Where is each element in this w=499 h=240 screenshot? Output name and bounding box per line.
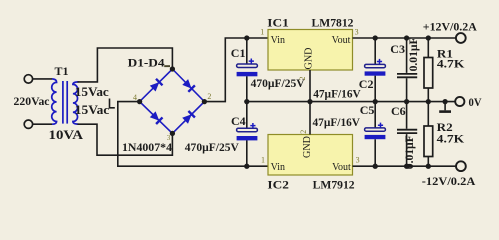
svg-text:15Vac: 15Vac — [75, 102, 110, 117]
svg-text:Vout: Vout — [332, 162, 351, 173]
svg-text:Vin: Vin — [271, 162, 285, 173]
wire: C6 branch — [406, 102, 408, 167]
transformer T1 secondary winding — [73, 82, 79, 124]
wire: 220V primary top lead — [33, 78, 52, 80]
svg-text:4.7K: 4.7K — [437, 132, 465, 146]
diode D2 (top node to right) — [182, 79, 195, 92]
svg-text:470µF/25V: 470µF/25V — [251, 76, 305, 90]
transformer T1 core — [62, 81, 64, 124]
diode D4 (bottom node to right) — [182, 111, 195, 124]
diode D3 (left node to bottom) — [150, 111, 163, 124]
capacitor C6 (0.01uF) — [397, 130, 417, 133]
node 4: bridge left junction — [137, 99, 142, 104]
junction dots top rail — [244, 35, 249, 40]
svg-text:470µF/25V: 470µF/25V — [185, 140, 239, 154]
node 1: bridge top junction — [170, 66, 175, 71]
svg-text:Vout: Vout — [332, 35, 351, 46]
wire: IC2 GND pin to 0V rail — [309, 102, 311, 135]
terminal: 220Vac bottom connector circle — [24, 120, 32, 128]
wire: bridge negative node 4 to IC2 Vin rail — [118, 102, 268, 167]
junction dots -12V rail — [244, 164, 249, 169]
capacitor C4 (electrolytic 470uF/25V) — [237, 123, 258, 140]
svg-text:LM7912: LM7912 — [313, 178, 355, 192]
svg-text:15Vac: 15Vac — [75, 84, 109, 99]
wire: C3 branch — [406, 38, 408, 102]
capacitor C3 (0.01uF) — [397, 74, 417, 77]
wire: 0V mid rail — [247, 101, 455, 103]
svg-text:Vin: Vin — [271, 35, 285, 46]
svg-text:2: 2 — [299, 130, 308, 134]
svg-text:C5: C5 — [360, 103, 375, 117]
wire: C1/C4 vertical branch — [246, 38, 248, 64]
op-amp/regulator IC1 LM7812 body — [268, 30, 353, 71]
svg-text:C6: C6 — [391, 104, 406, 118]
svg-text:4: 4 — [133, 93, 137, 102]
wire: secondary center tap stub — [110, 99, 115, 108]
svg-text:4.7K: 4.7K — [437, 57, 465, 71]
terminal: 220Vac top connector circle — [24, 75, 32, 83]
wire: secondary top to bridge AC node 1 — [78, 48, 173, 82]
wire: bridge positive node 2 to IC1 Vin rail — [204, 38, 268, 102]
transformer T1 primary winding — [52, 79, 57, 124]
resistor R1 (4.7K) — [424, 58, 433, 89]
svg-text:T1: T1 — [55, 64, 69, 78]
svg-text:IC1: IC1 — [267, 16, 289, 30]
svg-text:2: 2 — [298, 77, 307, 81]
wire: +12V rail from IC1 Vout — [353, 37, 456, 39]
svg-text:D1-D4: D1-D4 — [128, 56, 165, 70]
svg-text:2: 2 — [207, 92, 211, 101]
junction dots 0V rail — [244, 99, 249, 104]
svg-text:C2: C2 — [359, 77, 374, 91]
capacitor C2 (electrolytic 47uF/16V) — [365, 59, 386, 76]
svg-text:GND: GND — [304, 48, 315, 70]
node 2: bridge right junction — [202, 99, 207, 104]
op-amp/regulator IC2 LM7912 body — [268, 135, 353, 176]
wire: secondary bottom to bridge AC node 3 — [78, 124, 173, 155]
svg-text:47µF/16V: 47µF/16V — [313, 115, 361, 129]
wire: 220V primary bottom lead — [33, 123, 52, 125]
terminal +12V/0.2A — [456, 33, 466, 43]
svg-text:10VA: 10VA — [49, 127, 84, 142]
svg-text:1N4007*4: 1N4007*4 — [122, 140, 172, 154]
svg-text:0V: 0V — [469, 95, 482, 109]
wire: IC1 GND pin to 0V rail — [309, 70, 311, 102]
capacitor C1 (electrolytic 470uF/25V) — [237, 59, 258, 77]
wire: C2 branch — [374, 38, 376, 102]
svg-text:GND: GND — [302, 136, 313, 158]
svg-text:C3: C3 — [390, 42, 405, 56]
svg-text:0.01µF: 0.01µF — [406, 37, 420, 71]
wire: R2 stubs — [427, 102, 429, 167]
svg-text:C4: C4 — [231, 114, 246, 128]
svg-text:IC2: IC2 — [267, 178, 289, 192]
svg-text:1: 1 — [261, 156, 265, 165]
svg-text:+12V/0.2A: +12V/0.2A — [423, 19, 477, 33]
svg-text:220Vac: 220Vac — [14, 96, 50, 108]
svg-text:C1: C1 — [231, 46, 246, 60]
bridge rectifier D1-D4 diamond — [140, 69, 205, 133]
ground symbol on 0V rail — [444, 102, 446, 111]
node 3: bridge bottom junction — [170, 131, 175, 136]
svg-text:LM7812: LM7812 — [312, 16, 354, 30]
svg-text:47µF/16V: 47µF/16V — [313, 87, 361, 101]
terminal -12V/0.2A — [456, 161, 466, 171]
svg-text:1: 1 — [260, 28, 264, 37]
resistor R2 (4.7K) — [424, 126, 433, 157]
terminal 0V — [455, 97, 464, 106]
capacitor C5 (electrolytic 47uF/16V) — [374, 102, 376, 167]
svg-text:0.01µF: 0.01µF — [402, 135, 416, 169]
wire: -12V rail from IC2 Vout — [353, 165, 457, 167]
svg-text:3: 3 — [356, 156, 360, 165]
svg-text:3: 3 — [355, 28, 359, 37]
svg-text:-12V/0.2A: -12V/0.2A — [422, 174, 476, 188]
pin mark near node 1 — [164, 65, 170, 67]
diode D1 (lower-left node to top) — [150, 79, 163, 92]
wire: R1 stubs — [427, 38, 429, 102]
